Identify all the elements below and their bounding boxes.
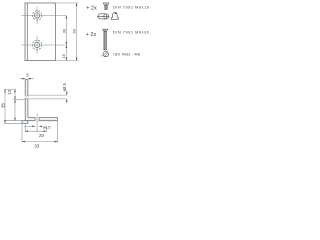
svg-text:ø8,5: ø8,5 bbox=[62, 82, 67, 91]
svg-text:+ 2x: + 2x bbox=[86, 32, 97, 38]
svg-text:12: 12 bbox=[7, 89, 12, 94]
svg-text:30: 30 bbox=[62, 28, 67, 33]
svg-text:20: 20 bbox=[39, 133, 45, 138]
svg-text:60: 60 bbox=[71, 28, 76, 33]
svg-text:15: 15 bbox=[61, 53, 66, 58]
svg-text:DIN 7991 M8x16: DIN 7991 M8x16 bbox=[113, 6, 149, 10]
svg-text:+ 2x: + 2x bbox=[86, 5, 97, 11]
svg-text:33: 33 bbox=[34, 144, 40, 149]
svg-text:ISO 4032 - M8: ISO 4032 - M8 bbox=[113, 53, 139, 57]
svg-text:35: 35 bbox=[0, 103, 5, 108]
svg-text:DIN 7991 M8x30: DIN 7991 M8x30 bbox=[113, 31, 149, 35]
